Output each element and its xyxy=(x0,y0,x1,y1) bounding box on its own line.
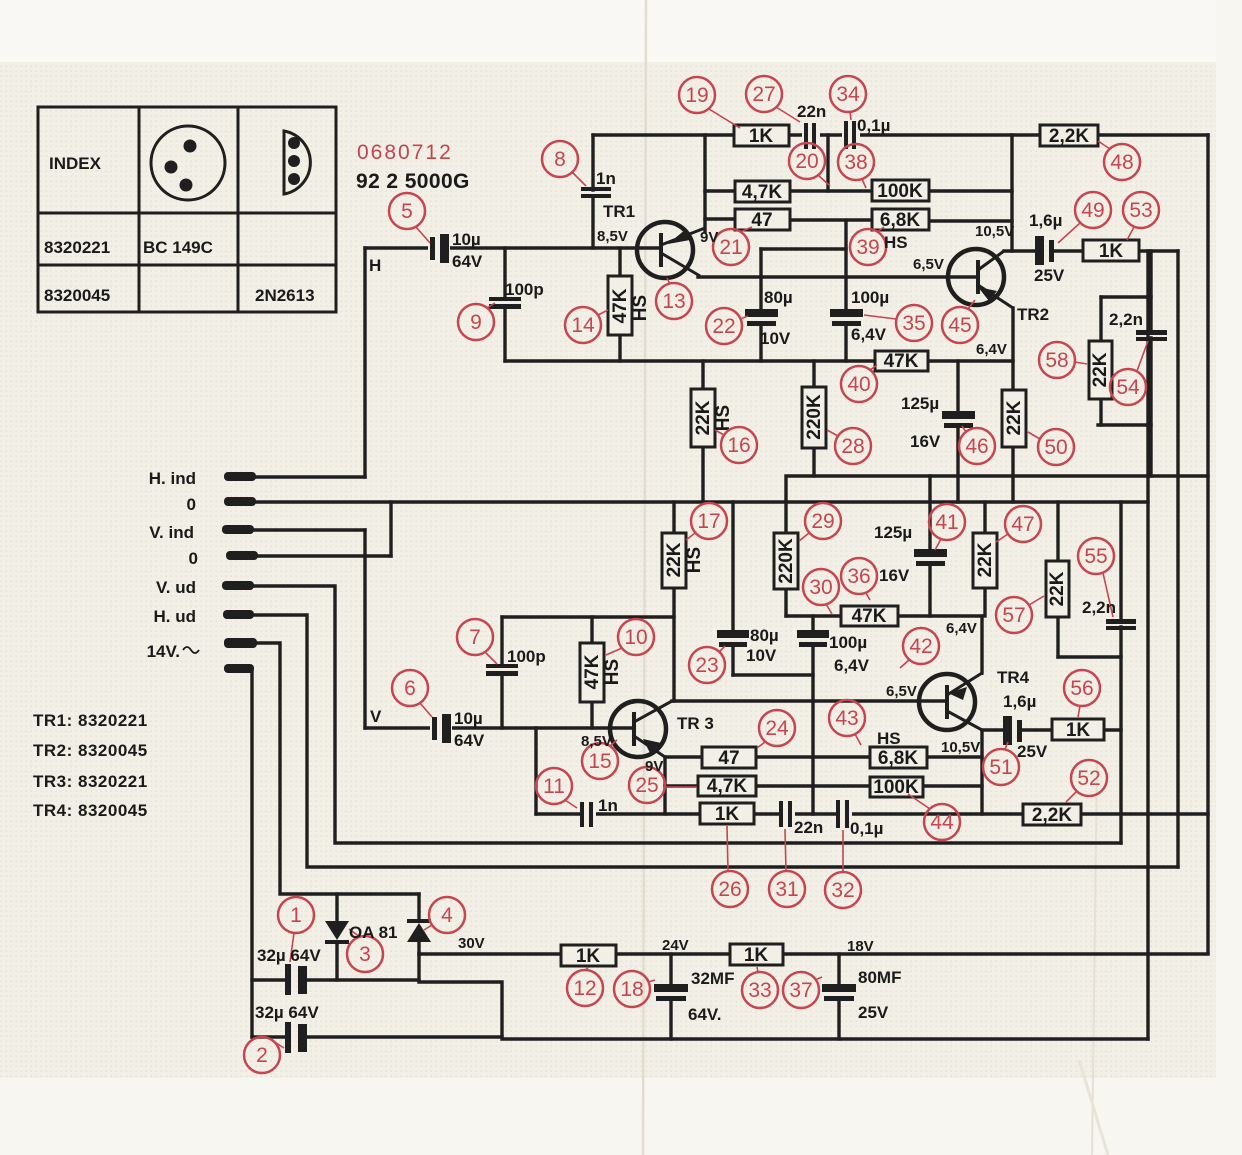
terminal spare xyxy=(224,664,254,673)
capacitor 49 (1,6u 25V) xyxy=(1035,236,1054,265)
transistor TR3 xyxy=(610,701,672,757)
svg-text:2,2n: 2,2n xyxy=(1082,598,1116,617)
wire 80u C22 top xyxy=(759,249,762,309)
svg-text:47K: 47K xyxy=(852,606,887,627)
wire 22K R47 top lead xyxy=(983,502,986,533)
wire 100p C9 lower xyxy=(503,308,506,361)
callout 10 xyxy=(606,619,654,655)
wire 125u C36 top xyxy=(928,476,931,549)
svg-text:22n: 22n xyxy=(794,818,823,837)
wire 22K R17 bottom to TR3 collector xyxy=(672,588,675,701)
wire diode D1 to 32u row xyxy=(335,944,338,980)
wire diode D2 to 30V rail xyxy=(417,942,420,954)
callout 39 xyxy=(850,227,886,265)
svg-text:TR1: TR1 xyxy=(603,202,635,221)
wire 47K R14 top lead xyxy=(618,248,621,276)
callout 18 xyxy=(614,971,655,1007)
svg-text:47: 47 xyxy=(751,210,772,231)
callout 12 xyxy=(567,967,603,1006)
resistor 25 (4,7K) xyxy=(698,776,756,797)
label 10u C6 xyxy=(454,709,485,750)
wire V input line to TR3 base xyxy=(365,726,632,729)
label 10u C5 xyxy=(452,230,483,271)
wire V.ind lead xyxy=(250,528,365,531)
callout 19 xyxy=(679,77,740,128)
callout 17 xyxy=(686,503,727,540)
svg-text:22K: 22K xyxy=(664,542,685,577)
wire 32u C1 row right xyxy=(305,978,419,981)
wire 100u C42 bottom long xyxy=(811,646,814,814)
resistor 29 (220K) vertical xyxy=(774,533,798,589)
svg-text:43: 43 xyxy=(835,707,858,730)
callout 43 xyxy=(829,700,865,745)
callout 23 xyxy=(689,646,725,683)
wire C23-C42 jumper xyxy=(733,673,813,676)
resistor 10 (47K HS) vertical xyxy=(580,643,623,702)
capacitor 34 (0,1u) xyxy=(842,121,860,149)
wire right inner vertical 1148 xyxy=(1146,251,1149,1039)
label 125u C36 xyxy=(874,523,912,585)
svg-text:10: 10 xyxy=(624,626,647,649)
capacitor 9 (100p) xyxy=(489,297,521,309)
svg-text:V. ind: V. ind xyxy=(149,523,194,542)
wire 47 R21 / 6.8K R39 row xyxy=(705,217,735,220)
callout 7 xyxy=(457,619,497,664)
callout 1 xyxy=(278,897,314,962)
svg-text:37: 37 xyxy=(789,979,812,1002)
callout 50 xyxy=(1028,429,1074,465)
callout 31 xyxy=(769,829,805,907)
label 100u C42 xyxy=(829,633,870,675)
svg-text:100K: 100K xyxy=(873,777,919,798)
svg-text:16: 16 xyxy=(727,434,750,457)
svg-text:48: 48 xyxy=(1110,151,1133,174)
legend TR1-TR4 xyxy=(33,711,148,820)
terminal 14V xyxy=(224,638,257,648)
wire 100u C35 top xyxy=(844,221,847,309)
svg-text:TR1: 8320221: TR1: 8320221 xyxy=(33,711,148,730)
callout 42 xyxy=(900,628,939,668)
wire 22K R58 top lead xyxy=(1099,297,1102,341)
svg-text:6,4V: 6,4V xyxy=(851,325,887,344)
label 80u C22 xyxy=(760,288,793,348)
svg-text:0: 0 xyxy=(189,549,198,568)
resistor 14 (47K HS) vertical xyxy=(608,276,651,335)
svg-text:V: V xyxy=(370,707,382,726)
svg-text:BC 149C: BC 149C xyxy=(143,238,213,257)
svg-text:TR4: 8320045: TR4: 8320045 xyxy=(33,801,148,820)
svg-text:2: 2 xyxy=(256,1044,268,1067)
svg-text:0680712: 0680712 xyxy=(357,141,453,164)
wire 22K R58 bottom lead xyxy=(1099,399,1102,425)
callout 27 xyxy=(746,76,800,122)
svg-text:24V: 24V xyxy=(662,937,689,954)
callout 14 xyxy=(565,307,608,343)
svg-text:INDEX: INDEX xyxy=(49,154,102,173)
wire row 786 mid xyxy=(756,784,870,787)
svg-text:80MF: 80MF xyxy=(858,968,901,987)
resistor 58 (22K) vertical xyxy=(1089,341,1112,399)
svg-text:22K: 22K xyxy=(1090,352,1111,387)
svg-text:64V.: 64V. xyxy=(688,1005,721,1024)
wire diode D2 leg xyxy=(417,894,420,919)
wire 30V rail to 1K R12 xyxy=(419,952,561,955)
wire 100u C35 bottom xyxy=(844,325,847,361)
callout 22 xyxy=(706,308,748,344)
capacitor 11 (1n) xyxy=(580,802,596,828)
wire 125u C46 top xyxy=(956,361,959,411)
wire TR2 emitter row 251 xyxy=(1004,249,1035,252)
svg-text:32µ 64V: 32µ 64V xyxy=(255,1003,319,1022)
wire 22K R58 loop bottom xyxy=(1098,423,1151,426)
svg-text:100µ: 100µ xyxy=(851,288,889,307)
svg-text:64V: 64V xyxy=(452,252,483,271)
wire 14V lead down to rectifier box xyxy=(250,643,419,894)
svg-text:80µ: 80µ xyxy=(764,288,793,307)
wire H input line to TR1 base xyxy=(365,246,659,249)
resistor 16 (22K HS) vertical xyxy=(691,389,734,447)
transistor TR2 xyxy=(948,249,1013,308)
callout 13 xyxy=(656,278,692,319)
svg-text:47K: 47K xyxy=(610,288,631,323)
svg-text:58: 58 xyxy=(1045,349,1068,372)
capacitor 42 (100u 6,4V) electrolytic xyxy=(797,630,829,647)
wire 220K R28 top lead xyxy=(812,361,815,387)
svg-text:45: 45 xyxy=(948,314,971,337)
svg-text:TR 3: TR 3 xyxy=(677,714,714,733)
callout 20 xyxy=(789,143,830,186)
wire 1n C11 branch from V line xyxy=(534,728,537,814)
svg-text:6,5V: 6,5V xyxy=(913,256,944,273)
wire 22K R58 loop top xyxy=(1101,295,1151,298)
svg-text:H: H xyxy=(369,256,381,275)
capacitor 2 (32u 64V) xyxy=(285,1022,307,1053)
svg-text:0,1µ: 0,1µ xyxy=(850,819,883,838)
svg-text:H. ud: H. ud xyxy=(154,607,197,626)
callout 36 xyxy=(841,558,877,600)
svg-text:2N2613: 2N2613 xyxy=(255,286,315,305)
diode D1 OA81 xyxy=(325,921,349,944)
svg-text:TR4: TR4 xyxy=(997,668,1030,687)
wire 80MF C37 bottom xyxy=(837,1001,840,1039)
svg-text:22K: 22K xyxy=(975,542,996,577)
resistor 17 (22K HS) vertical xyxy=(662,533,705,588)
svg-text:220K: 220K xyxy=(776,538,797,584)
wire 47K R40 row (6.4V) xyxy=(505,359,1013,362)
wire 80u C23 top from 0 bus xyxy=(731,502,734,630)
svg-text:100µ: 100µ xyxy=(829,633,867,652)
svg-text:8: 8 xyxy=(554,148,566,171)
capacitor 32 (0,1u) xyxy=(836,800,852,828)
svg-text:1K: 1K xyxy=(715,804,740,825)
wire V.ind vertical to V input xyxy=(363,530,366,728)
svg-text:22K: 22K xyxy=(693,400,714,435)
svg-text:38: 38 xyxy=(844,151,867,174)
wire H.ind vertical xyxy=(363,248,366,477)
resistor 39 (6,8K) xyxy=(872,209,929,231)
wire C22-C35 jumper xyxy=(761,247,846,250)
resistor 53 (1K) xyxy=(1083,240,1139,262)
wire row 220 right to TR2 node xyxy=(929,219,1012,222)
resistor 19 (1K) xyxy=(734,125,789,147)
callout 33 xyxy=(742,967,778,1008)
svg-text:53: 53 xyxy=(1129,199,1152,222)
callout 49 xyxy=(1058,192,1111,243)
capacitor 27 (22n) xyxy=(802,123,820,149)
index table xyxy=(38,107,336,312)
svg-text:220K: 220K xyxy=(804,394,825,440)
svg-text:31: 31 xyxy=(775,878,798,901)
wire row 757 mid xyxy=(756,755,870,758)
wire right vertical 1178 xyxy=(1176,251,1179,867)
svg-text:41: 41 xyxy=(935,511,958,534)
svg-text:1,6µ: 1,6µ xyxy=(1029,211,1062,230)
callout 54 xyxy=(1110,341,1148,405)
capacitor 51 (1,6u 25V) xyxy=(1003,716,1022,745)
svg-text:9: 9 xyxy=(470,311,482,334)
wire H.ind terminal lead xyxy=(250,475,365,478)
svg-text:52: 52 xyxy=(1077,767,1100,790)
callout 30 xyxy=(803,569,839,614)
svg-text:TR3: 8320221: TR3: 8320221 xyxy=(33,772,148,791)
wire row 191 right to TR2 node xyxy=(929,189,1012,192)
svg-text:0: 0 xyxy=(187,495,196,514)
wire 814 row seg6 to right edge xyxy=(1081,812,1208,815)
wire 22K R16 bottom lead to 0 bus xyxy=(701,447,704,502)
callout 9 xyxy=(458,303,495,340)
svg-text:6,4V: 6,4V xyxy=(976,341,1007,358)
svg-text:10,5V: 10,5V xyxy=(941,739,980,756)
svg-text:6,4V: 6,4V xyxy=(946,620,977,637)
svg-text:32: 32 xyxy=(831,879,854,902)
svg-text:19: 19 xyxy=(685,84,708,107)
svg-text:47: 47 xyxy=(718,748,739,769)
svg-text:34: 34 xyxy=(836,83,860,106)
svg-text:7: 7 xyxy=(469,626,481,649)
svg-text:1K: 1K xyxy=(744,945,769,966)
wire 814 row seg2 xyxy=(592,812,700,815)
svg-text:6,5V: 6,5V xyxy=(886,683,917,700)
wire row 191 mid xyxy=(789,189,872,192)
capacitor 46 (125u 16V) electrolytic xyxy=(942,411,975,428)
wire 32MF C18 top xyxy=(669,954,672,984)
svg-text:54: 54 xyxy=(1116,376,1140,399)
svg-text:8320221: 8320221 xyxy=(44,238,110,257)
svg-text:1K: 1K xyxy=(1099,241,1124,262)
svg-text:80µ: 80µ xyxy=(750,626,779,645)
svg-text:125µ: 125µ xyxy=(874,523,912,542)
wire top supply bus TR1/TR2 cell xyxy=(593,133,1208,136)
wire 18V rail to right edge xyxy=(783,952,1208,955)
svg-text:29: 29 xyxy=(811,510,834,533)
svg-text:1n: 1n xyxy=(598,796,618,815)
svg-text:16V: 16V xyxy=(879,566,910,585)
svg-text:13: 13 xyxy=(662,290,685,313)
svg-text:16V: 16V xyxy=(910,432,941,451)
svg-text:0,1µ: 0,1µ xyxy=(857,116,890,135)
svg-text:100p: 100p xyxy=(505,280,544,299)
svg-text:32MF: 32MF xyxy=(691,969,734,988)
svg-text:5: 5 xyxy=(401,200,413,223)
label 125u C46 xyxy=(901,394,941,451)
callout 5 xyxy=(389,193,430,243)
svg-text:25V: 25V xyxy=(858,1003,889,1022)
callout 8 xyxy=(542,141,586,186)
callout 24 xyxy=(757,710,795,748)
wire 125u C36 bottom xyxy=(928,565,931,616)
callout 21 xyxy=(713,227,752,265)
callout 56 xyxy=(1064,670,1100,717)
capacitor 7 (100p) xyxy=(486,664,518,676)
wire 0 join vertical xyxy=(389,502,392,556)
svg-text:10,5V: 10,5V xyxy=(975,223,1014,240)
wire jog down to ground row xyxy=(419,954,1148,1039)
callout 35 xyxy=(864,305,932,341)
svg-text:35: 35 xyxy=(902,312,925,335)
svg-text:44: 44 xyxy=(930,811,954,834)
label 14V ac xyxy=(147,642,199,661)
svg-text:100K: 100K xyxy=(877,181,923,202)
svg-text:47K: 47K xyxy=(884,351,919,372)
svg-text:2,2n: 2,2n xyxy=(1109,310,1143,329)
svg-text:30: 30 xyxy=(809,576,832,599)
wire TR1 collector node vertical xyxy=(703,135,706,232)
svg-text:50: 50 xyxy=(1044,436,1067,459)
resistor 33 (1K) xyxy=(730,944,783,966)
terminal 0 xyxy=(224,497,256,506)
svg-text:18: 18 xyxy=(620,978,643,1001)
svg-text:92 2 5000G: 92 2 5000G xyxy=(356,170,470,193)
svg-text:8,5V: 8,5V xyxy=(581,733,612,750)
callout 3 xyxy=(347,929,383,972)
svg-text:HS: HS xyxy=(884,233,908,252)
wire 1n C8 lower stub xyxy=(591,196,594,248)
callout 52 xyxy=(1066,760,1107,802)
terminal H.ind xyxy=(224,472,256,481)
svg-text:4,7K: 4,7K xyxy=(707,776,747,797)
svg-text:11: 11 xyxy=(543,775,565,798)
capacitor 1 (32u 64V) xyxy=(285,964,307,995)
resistor 24 (47) xyxy=(702,747,756,769)
svg-text:46: 46 xyxy=(965,435,988,458)
resistor 38 (100K) xyxy=(872,180,929,202)
svg-text:14V.: 14V. xyxy=(147,642,180,661)
callout 58 xyxy=(1039,342,1087,378)
capacitor 6 (10u 64V) xyxy=(430,713,452,743)
svg-text:125µ: 125µ xyxy=(901,394,939,413)
svg-text:V. ud: V. ud xyxy=(156,578,196,597)
svg-text:HS: HS xyxy=(713,405,734,431)
svg-text:HS: HS xyxy=(684,547,705,573)
wire 47K R10 top lead xyxy=(590,617,593,643)
wire H.ud lead and loop via outer border xyxy=(249,615,1178,867)
wire right edge vertical (top bus down to 24V rail) xyxy=(1206,135,1209,953)
svg-text:3: 3 xyxy=(359,943,371,966)
wire 80u C23 bottom xyxy=(731,646,734,675)
svg-text:TR2: 8320045: TR2: 8320045 xyxy=(33,741,148,760)
wire 100p C7 lower to V line xyxy=(500,675,503,728)
resistor 52 (2,2K) xyxy=(1023,804,1081,826)
callout 55 xyxy=(1078,538,1114,617)
svg-text:47K: 47K xyxy=(582,654,603,689)
svg-text:22K: 22K xyxy=(1047,571,1068,606)
wire 814 bottom bus row left xyxy=(536,812,582,815)
svg-text:2,2K: 2,2K xyxy=(1049,126,1089,147)
wire 32u C2 row right xyxy=(305,1035,502,1038)
svg-text:8,5V: 8,5V xyxy=(597,228,628,245)
wire 4.7K R20 / 100K R38 row xyxy=(705,189,735,192)
wire 814 row seg5 xyxy=(848,812,1023,815)
wire TR4 emitter row 730 xyxy=(982,728,1004,731)
wire 22K R16 top lead xyxy=(701,361,704,389)
wire 1K R53 output to corner xyxy=(1139,249,1178,252)
callout 11 xyxy=(536,768,577,808)
label 1,6u C49 xyxy=(1029,211,1065,285)
svg-text:9V: 9V xyxy=(700,229,718,246)
label 80MF 25V xyxy=(858,968,901,1022)
svg-text:42: 42 xyxy=(909,635,932,658)
svg-text:1K: 1K xyxy=(1066,720,1091,741)
capacitor 35 (100u 6,4V) electrolytic xyxy=(830,309,863,326)
wire TR1 emitter row to TR2 base xyxy=(698,275,976,278)
svg-text:55: 55 xyxy=(1084,545,1107,568)
resistor 26 (1K) xyxy=(700,803,754,825)
capacitor 23 (80u 10V) electrolytic xyxy=(717,630,749,647)
wire V.ud lead and loop via bottom border xyxy=(250,586,1121,843)
wire row 786 right xyxy=(923,784,982,787)
wire 47K R10 bottom lead xyxy=(590,702,593,728)
svg-text:H. ind: H. ind xyxy=(149,469,196,488)
capacitor 22 (80u 10V) electrolytic xyxy=(745,309,778,326)
wire 1K R56 output xyxy=(1104,728,1121,731)
wire TR4 emitter vertical xyxy=(980,731,983,814)
wire 0 bus horizontal xyxy=(250,500,1148,503)
label 1,6u C51 xyxy=(1003,692,1048,761)
svg-text:100p: 100p xyxy=(507,647,546,666)
wire 22K R47 bottom lead xyxy=(983,588,986,616)
svg-text:10V: 10V xyxy=(746,646,777,665)
wire rectifier box left diode leg xyxy=(335,894,338,921)
capacitor 54 (2,2n) xyxy=(1136,330,1167,341)
svg-text:22: 22 xyxy=(712,315,735,338)
svg-text:HS: HS xyxy=(602,659,623,685)
svg-text:9V: 9V xyxy=(645,758,663,775)
wire 2.2n C55 lower vertical to border xyxy=(1119,627,1122,843)
wire 100p C7 upper xyxy=(500,617,503,665)
svg-text:25V: 25V xyxy=(1017,742,1048,761)
callout 37 xyxy=(783,972,822,1008)
wire 476 return line xyxy=(786,476,1208,502)
callout 15 xyxy=(582,740,618,779)
wire 22K R50 bottom to 0 bus xyxy=(1011,447,1014,502)
svg-text:49: 49 xyxy=(1081,199,1104,222)
callout 29 xyxy=(799,503,841,541)
resistor 50 (22K) vertical xyxy=(1002,390,1026,447)
svg-text:HS: HS xyxy=(877,729,901,748)
resistor 44 (100K) xyxy=(870,777,923,798)
svg-text:22n: 22n xyxy=(797,102,826,121)
callout 28 xyxy=(827,428,871,464)
svg-text:4: 4 xyxy=(441,904,453,927)
svg-text:57: 57 xyxy=(1002,604,1025,627)
svg-text:20: 20 xyxy=(795,150,818,173)
svg-text:17: 17 xyxy=(697,510,720,533)
svg-text:25: 25 xyxy=(635,774,658,797)
callout 16 xyxy=(715,427,757,463)
wire row 757 right xyxy=(927,755,982,758)
resistor 57 (22K) vertical xyxy=(1046,561,1069,617)
wire 47K R30 row (6.4V) xyxy=(786,614,982,617)
